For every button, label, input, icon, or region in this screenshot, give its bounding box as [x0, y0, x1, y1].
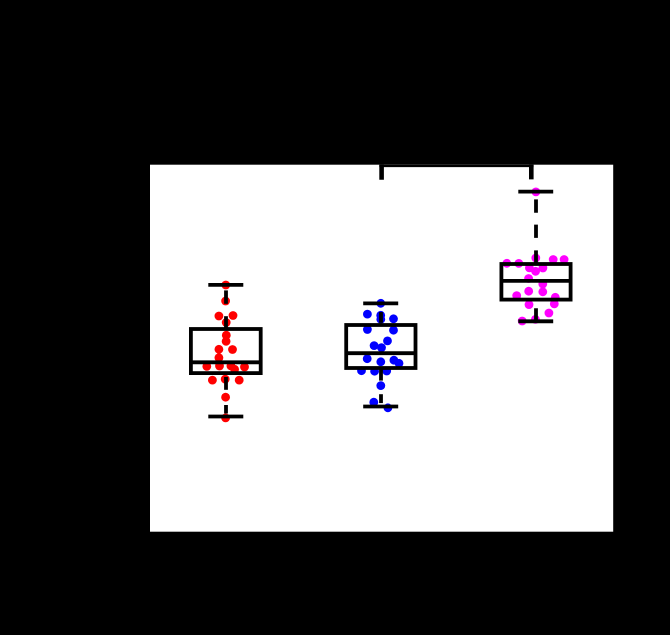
magenta jitter points group 3	[502, 188, 568, 326]
lower cap 1	[208, 415, 243, 419]
upper cap 3	[518, 190, 553, 194]
median 2	[346, 351, 415, 355]
box 3	[501, 264, 570, 300]
median 3	[501, 279, 570, 283]
boxplot 2 (blue group) lines	[346, 303, 415, 406]
upper whisker 3 dashes	[534, 199, 538, 212]
lower cap 3	[518, 319, 553, 323]
boxplot 1 (red group) lines	[191, 285, 261, 417]
significance bracket between group 2 and group 3	[379, 163, 533, 167]
box 2	[346, 325, 415, 368]
red jitter points group 1	[202, 281, 249, 423]
upper cap 2	[363, 301, 398, 305]
median 1	[191, 360, 261, 364]
upper cap 1	[208, 283, 243, 287]
box 1	[191, 329, 261, 373]
lower whisker 3 dash	[534, 308, 538, 319]
boxplot 3 (magenta group) lines	[501, 192, 570, 322]
lower cap 2	[363, 405, 398, 409]
upper whisker 1 dashes	[224, 290, 228, 303]
lower whisker 2 dashes	[379, 368, 383, 381]
blue jitter points group 2	[357, 299, 403, 412]
upper whisker 2 dash	[379, 312, 383, 323]
axes background	[150, 165, 613, 532]
lower whisker 1 dashes	[224, 377, 228, 390]
